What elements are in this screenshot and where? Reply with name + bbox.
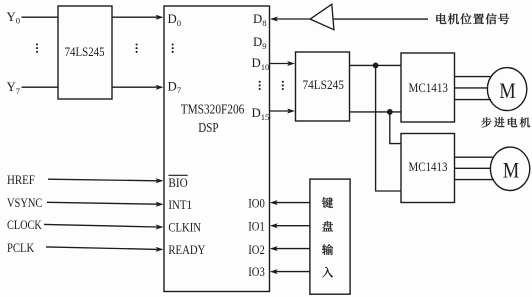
svg-text:Y0: Y0 [7,10,21,26]
wire U1 D7 to DSP [112,85,164,90]
pin IO0 [248,196,265,211]
ellipsis DSP-U4 bus [282,81,284,90]
IC U4 74LS245 output buffer [296,52,350,121]
svg-text:D10: D10 [252,56,270,72]
svg-text:D7: D7 [168,79,182,95]
svg-text:BIO: BIO [168,175,187,190]
wire U4 out bottom to U5 [350,111,402,113]
pin IO1 [248,219,265,234]
buffer U3 triangle motor position signal [310,4,334,30]
wire keyboard to DSP IO2 [270,246,310,251]
wire DSP D15 to U4 [270,109,296,114]
wire Y7 to U1 [22,86,59,88]
svg-text:IO3: IO3 [248,264,265,279]
wire U6 to motor M2 3 lines [455,157,495,179]
wire Y0 to U1 [22,16,59,18]
svg-text:READY: READY [168,242,206,257]
svg-text:CLKIN: CLKIN [168,219,201,234]
label keyboard char pan [322,221,333,231]
label keyboard char shu [322,244,333,255]
wire signal label to buffer input [333,18,428,20]
IC U5 MC1413 driver 1 [401,53,455,122]
IC U2 TMS320F206 DSP [164,6,270,292]
ellipsis U1-DSP bus [136,43,138,53]
svg-text:M: M [503,157,519,182]
junction node A [373,63,379,69]
svg-text:74LS245: 74LS245 [65,44,105,59]
pin D7 [168,79,182,95]
wire HREF to DSP [48,178,164,183]
wire U5 to motor M1 3 lines [455,77,492,100]
svg-text:MC1413: MC1413 [409,80,448,95]
pin D0 [168,12,182,28]
pin D15 [252,106,270,122]
wire buffer output to DSP D8 [270,17,310,22]
node CLOCK label [7,217,42,232]
label motor position signal CJK [436,13,509,24]
wire keyboard to DSP IO1 [270,223,310,228]
label keyboard char jian [322,197,333,208]
pin INT1 [168,197,192,212]
wire VSYNC to DSP [47,202,164,207]
node PCLK label [7,240,35,255]
svg-text:M: M [499,78,515,103]
svg-text:IO2: IO2 [248,242,265,257]
svg-text:MC1413: MC1413 [409,159,448,174]
svg-text:D0: D0 [168,12,182,28]
label stepper motor CJK [481,117,530,127]
svg-text:HREF: HREF [7,172,35,187]
ellipsis D10..D15 [259,81,261,90]
svg-text:PCLK: PCLK [7,240,35,255]
pin IO3 [248,264,265,279]
node Y7 label [7,80,21,96]
svg-text:IO1: IO1 [248,219,265,234]
ellipsis Y0..Y7 [36,43,38,52]
wire U4 out top to U5 [350,64,402,66]
svg-text:DSP: DSP [198,120,218,135]
svg-text:Y7: Y7 [7,80,21,96]
svg-text:D15: D15 [252,106,270,122]
svg-text:D9: D9 [253,35,267,51]
pin CLKIN [168,219,201,234]
node HREF label [7,172,35,187]
pin READY [168,242,206,257]
pin D9 [253,35,267,51]
svg-text:VSYNC: VSYNC [7,195,42,210]
pin IO2 [248,242,265,257]
wire CLOCK to DSP [44,224,164,229]
wire node A to U6 lower input [376,65,401,191]
wire U1 D0 to DSP [112,15,164,20]
pin D8 [253,12,267,28]
svg-text:IO0: IO0 [248,196,265,211]
pin BIO overline [168,175,187,190]
svg-text:74LS245: 74LS245 [303,77,344,92]
node VSYNC label [7,195,42,210]
label keyboard char ru [322,267,333,278]
svg-text:TMS320F206: TMS320F206 [181,101,245,116]
ellipsis D0..D7 [172,43,174,53]
svg-text:INT1: INT1 [168,197,192,212]
IC U1 74LS245 input buffer [58,6,112,99]
wire node B to U6 upper input [390,112,401,144]
IC U6 MC1413 driver 2 [401,134,455,203]
keyboard input box [310,179,350,294]
pin D10 [252,56,270,72]
wire keyboard to DSP IO3 [270,269,310,274]
node Y0 label [7,10,21,26]
motor M2 stepper [490,147,529,190]
wire PCLK to DSP [46,247,164,252]
junction node B [387,109,393,115]
svg-text:CLOCK: CLOCK [7,217,42,232]
svg-text:D8: D8 [253,12,267,28]
wire keyboard to DSP IO0 [270,200,310,205]
motor M1 stepper [487,68,526,111]
wire DSP D10 to U4 [270,61,296,66]
